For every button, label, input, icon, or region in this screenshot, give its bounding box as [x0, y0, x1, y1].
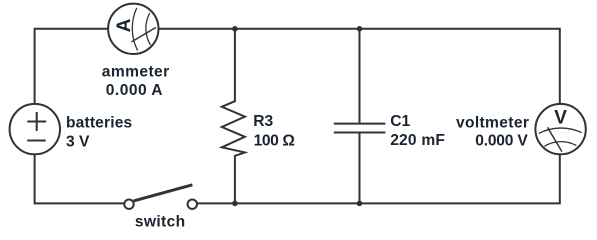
svg-text:R3: R3 — [253, 113, 273, 130]
svg-text:batteries: batteries — [66, 115, 133, 132]
svg-text:A: A — [114, 18, 135, 32]
svg-text:ammeter: ammeter — [102, 64, 170, 81]
svg-text:0.000 V: 0.000 V — [475, 132, 528, 149]
svg-text:C1: C1 — [390, 113, 410, 130]
svg-text:switch: switch — [135, 214, 186, 231]
svg-text:100 Ω: 100 Ω — [254, 132, 295, 149]
svg-text:220 mF: 220 mF — [390, 132, 445, 149]
svg-text:V: V — [554, 108, 567, 129]
svg-text:3 V: 3 V — [66, 133, 90, 150]
svg-text:voltmeter: voltmeter — [456, 115, 529, 132]
svg-text:0.000 A: 0.000 A — [106, 82, 163, 99]
